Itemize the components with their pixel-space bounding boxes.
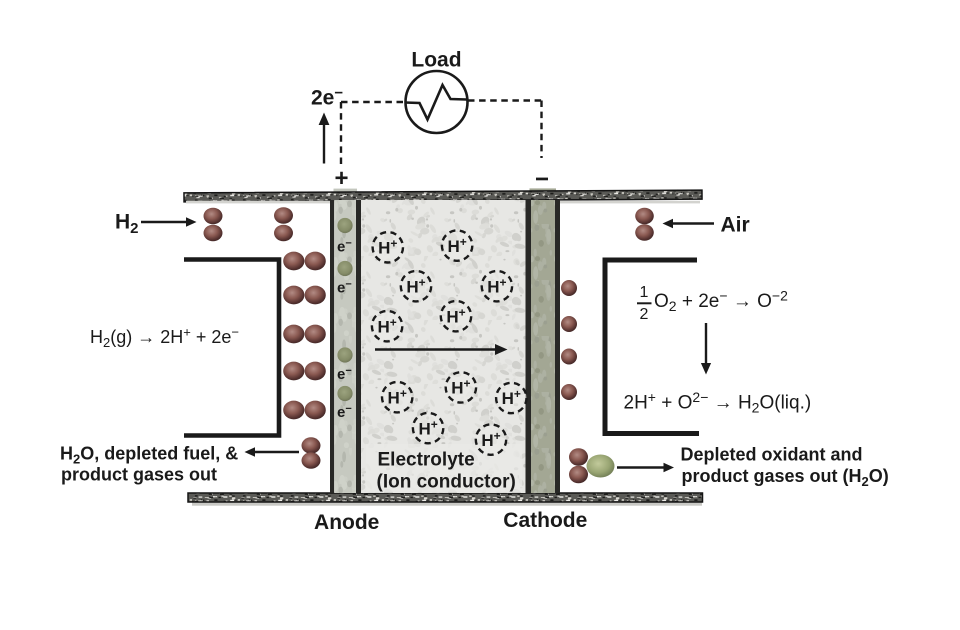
H2 molecule 1 — [204, 208, 223, 242]
cathode right dark edge — [555, 200, 560, 493]
svg-text:(Ion conductor): (Ion conductor) — [377, 472, 516, 493]
H2 molecule pair row 5 — [283, 401, 326, 420]
air molecule — [635, 208, 654, 241]
air inlet arrow — [663, 219, 715, 229]
svg-text:H2: H2 — [115, 211, 139, 238]
fuel outlet label — [60, 444, 238, 485]
H2 molecule pair row 3 — [283, 325, 326, 344]
svg-text:2e−: 2e− — [311, 85, 343, 110]
svg-text:product gases out (H2O): product gases out (H2O) — [682, 466, 889, 489]
proton H+ 11 — [476, 424, 506, 454]
svg-text:O2 + 2e− → O−2: O2 + 2e− → O−2 — [654, 288, 788, 315]
cathode left dark edge — [526, 200, 532, 493]
label e- 1 — [337, 238, 352, 256]
svg-text:Anode: Anode — [314, 511, 379, 534]
svg-text:Air: Air — [721, 214, 750, 237]
cathode reduction equation — [654, 288, 788, 315]
label 2e- top — [311, 85, 343, 110]
minus terminal — [536, 178, 548, 181]
proton H+ 9 — [496, 383, 526, 413]
svg-text:H2O, depleted fuel, &: H2O, depleted fuel, & — [60, 444, 238, 467]
cathode label — [503, 509, 587, 532]
wire dashed left horizontal — [341, 101, 405, 103]
H2 molecule pair row 1 — [283, 252, 326, 271]
cathode sphere 3 — [561, 349, 577, 365]
wire dashed right horizontal — [468, 99, 542, 101]
svg-text:H2(g) → 2H+ + 2e−: H2(g) → 2H+ + 2e− — [90, 325, 239, 351]
proton H+ 5 — [441, 301, 471, 331]
label e- 3 — [337, 365, 352, 383]
proton flow arrow — [375, 344, 508, 355]
load waveform — [405, 85, 467, 120]
label e- 4 — [337, 403, 352, 421]
proton H+ 6 — [372, 311, 402, 341]
proton H+ 1 — [373, 232, 403, 262]
svg-text:Depleted oxidant and: Depleted oxidant and — [681, 445, 863, 465]
fuel outlet arrow — [245, 447, 300, 457]
cathode column cap above bar — [530, 188, 557, 192]
proton H+ 10 — [413, 413, 443, 443]
oxygen fraction half — [637, 284, 652, 323]
proton H+ 7 — [382, 382, 412, 412]
cathode flow channel box — [605, 260, 699, 434]
bottom interconnect bar shadow — [192, 503, 702, 506]
electrolyte region — [361, 200, 526, 493]
proton H+ 2 — [442, 230, 472, 260]
svg-text:Electrolyte: Electrolyte — [378, 450, 475, 471]
load circle U1 — [406, 71, 468, 133]
water formation equation — [624, 389, 812, 416]
H2 molecule 2 — [274, 207, 293, 241]
svg-text:product gases out: product gases out — [61, 465, 217, 485]
plus terminal — [334, 165, 348, 192]
bottom interconnect bar — [188, 493, 703, 502]
svg-text:2: 2 — [640, 306, 649, 323]
label e- 2 — [337, 279, 352, 297]
anode olive particle 1 — [337, 218, 352, 233]
electrolyte label backing — [366, 444, 522, 492]
cathode sphere 4 — [561, 384, 577, 400]
oxidant outlet label — [681, 445, 889, 490]
proton H+ 8 — [446, 372, 476, 402]
svg-text:Cathode: Cathode — [503, 509, 587, 532]
anode label — [314, 511, 379, 534]
anode right dark edge — [356, 200, 361, 493]
oxidant outlet molecules — [569, 448, 615, 483]
anode olive particle 2 — [337, 261, 352, 276]
load label — [411, 49, 461, 72]
H2 molecule pair row 4 — [283, 362, 326, 381]
oxidant outlet arrow — [617, 463, 674, 473]
cathode sphere 2 — [561, 316, 577, 332]
proton H+ 3 — [401, 271, 431, 301]
outlet molecule left — [302, 437, 321, 468]
anode half reaction equation — [90, 325, 239, 351]
svg-text:+: + — [334, 165, 348, 192]
H2 molecule pair row 2 — [283, 286, 326, 305]
wire dashed left vertical — [340, 102, 342, 167]
H2 inlet arrow — [141, 217, 197, 227]
cathode sphere 1 — [561, 280, 577, 296]
cathode catalyst layer — [531, 200, 555, 493]
proton H+ 4 — [482, 271, 512, 301]
anode column cap above bar — [334, 189, 358, 193]
anode left dark edge — [330, 200, 334, 493]
top interconnect bar — [184, 190, 702, 202]
label H2 inlet — [115, 211, 139, 238]
anode flow channel box — [184, 260, 279, 436]
svg-text:Load: Load — [411, 49, 461, 72]
wire dashed right vertical — [540, 101, 542, 159]
anode catalyst layer — [334, 200, 356, 493]
anode olive particle 4 — [337, 386, 352, 401]
top interconnect bar shadow — [186, 201, 700, 204]
svg-text:1: 1 — [640, 284, 649, 301]
svg-text:2H+ + O2− → H2O(liq.): 2H+ + O2− → H2O(liq.) — [624, 389, 812, 416]
electrolyte label — [377, 450, 516, 493]
reaction arrow down — [701, 323, 711, 375]
air label — [721, 214, 750, 237]
anode olive particle 3 — [337, 347, 352, 362]
electron flow arrow up — [319, 113, 330, 164]
